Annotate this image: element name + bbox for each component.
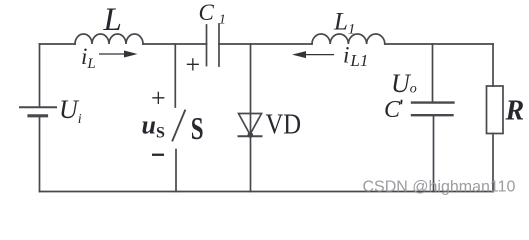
switch S upper wire [174,44,176,107]
wire bottom rail [40,191,494,193]
inductor L1 [312,34,385,44]
capacitor C top plate [412,101,454,103]
label VD [266,109,302,140]
capacitor C upper wire [432,44,434,102]
wire top-left segment [40,43,76,45]
capacitor C bottom plate [412,114,453,116]
diode VD upper wire [250,44,252,136]
svg-text:Uo: Uo [391,69,417,98]
svg-text:L1: L1 [333,8,355,37]
capacitor C lower wire [433,116,435,191]
svg-text:CSDN @highman110: CSDN @highman110 [363,179,516,196]
arrow iL [99,51,138,58]
arrow iL1 [292,51,334,58]
svg-text:C: C [384,97,401,123]
battery Ui short plate [29,114,47,117]
svg-text:iL: iL [81,44,96,72]
wire left branch upper [39,44,41,107]
battery Ui long plate [20,106,56,108]
resistor R body [487,86,504,134]
switch S blade [173,111,186,141]
svg-text:R: R [505,95,525,126]
diode VD cathode bar [239,135,262,137]
wire L to C1 [143,43,207,45]
svg-text:C1: C1 [199,0,226,27]
label C prime mark [400,100,402,105]
resistor R upper wire [492,44,494,86]
capacitor C1 [207,24,220,66]
svg-text:+: + [186,50,201,79]
svg-text:+: + [151,84,166,113]
diode VD triangle [239,114,262,135]
svg-text:Ui: Ui [59,95,82,127]
resistor R lower wire [492,134,494,192]
svg-text:VD: VD [266,109,302,140]
svg-text:S: S [191,111,204,147]
wire left branch lower [39,117,41,192]
svg-text:L: L [103,2,122,38]
wire C1 to L1 [219,43,312,45]
switch S lower wire [175,150,177,192]
label S [191,111,204,147]
label minus switch [152,154,164,156]
svg-text:iL1: iL1 [343,43,368,71]
diode VD lower wire [250,136,252,191]
svg-text:uS: uS [142,110,165,141]
junction dot diode cathode [248,132,254,138]
wire L1 to top-right corner [385,43,493,45]
inductor L [75,34,143,44]
